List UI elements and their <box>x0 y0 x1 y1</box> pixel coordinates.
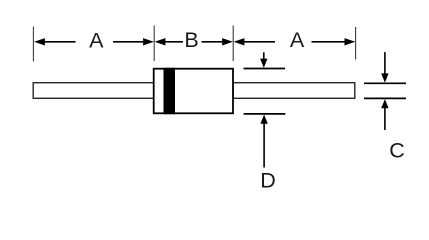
dimension C bottom arrow (up) <box>381 99 388 108</box>
dimension A (right) arrow left <box>234 38 245 45</box>
wire right lead <box>233 83 355 99</box>
extension tick 3 (body right) <box>232 26 234 62</box>
dimension C top tick <box>364 82 406 84</box>
dimension A (right) arrow right <box>345 38 356 45</box>
extension tick 2 (body left) <box>153 26 155 62</box>
dimension C top arrow (down) <box>384 52 386 75</box>
wire: dim B shaft right <box>202 41 224 43</box>
dimension D bottom arrow (up) <box>260 115 267 124</box>
wire: dim A left shaft left <box>44 41 76 43</box>
wire: dim A right shaft left <box>244 41 275 43</box>
dimension A (left) arrow left <box>34 38 45 45</box>
diode body <box>154 69 233 114</box>
extension tick 1 (left lead end) <box>32 27 34 62</box>
dimension A (left) arrow right <box>143 38 154 45</box>
wire: dim A left shaft right <box>113 41 144 43</box>
svg-text:D: D <box>260 169 276 193</box>
svg-text:A: A <box>290 28 305 52</box>
dimension D bottom tick <box>244 113 286 115</box>
svg-text:A: A <box>89 28 104 52</box>
cathode band <box>164 68 176 114</box>
dimension C bottom tick <box>364 97 406 99</box>
svg-text:C: C <box>389 139 405 163</box>
dimension D top arrow (down) <box>263 52 265 60</box>
dimension B arrow right <box>222 38 233 45</box>
svg-text:B: B <box>184 28 198 52</box>
wire: dim A right shaft right <box>312 41 346 43</box>
dimension B arrow left <box>155 38 166 45</box>
extension tick 4 (right lead end) <box>355 27 357 60</box>
wire: dim B shaft left <box>165 41 183 43</box>
dimension D top tick <box>244 68 285 70</box>
wire left lead <box>33 83 154 99</box>
